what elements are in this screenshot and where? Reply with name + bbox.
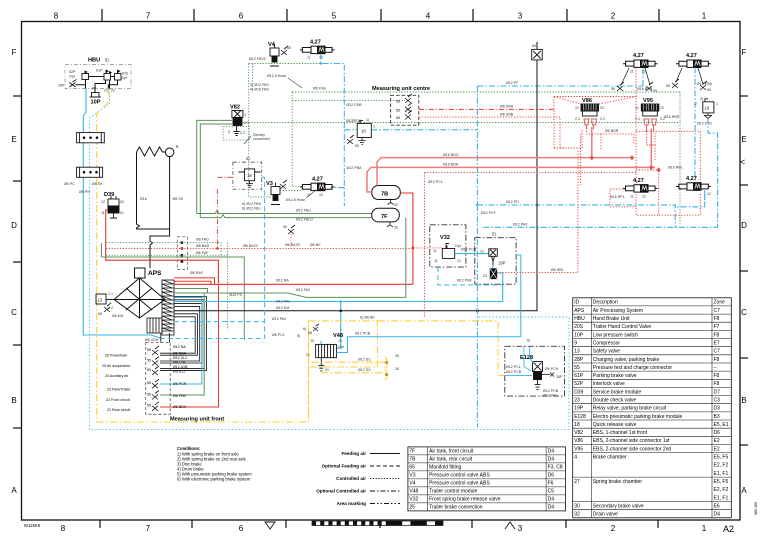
wire yellow area boundary: [97, 321, 309, 422]
svg-text:21 Rear circuit: 21 Rear circuit: [107, 408, 130, 412]
svg-text:Ø12 PBC: Ø12 PBC: [697, 122, 713, 126]
svg-text:Ø6 L2R: Ø6 L2R: [173, 361, 186, 365]
svg-text:11: 11: [307, 193, 311, 197]
svg-text:22: 22: [660, 106, 664, 110]
svg-text:V95: V95: [574, 446, 583, 452]
wire red dash-dot O6 SNA: [419, 108, 554, 110]
svg-text:APS: APS: [148, 270, 162, 277]
svg-text:6): 6): [303, 327, 306, 331]
svg-text:Ø6 BAS3: Ø6 BAS3: [285, 243, 300, 247]
svg-text:Secondary brake valve: Secondary brake valve: [593, 503, 644, 509]
svg-text:Ø6 SNB: Ø6 SNB: [500, 113, 514, 117]
svg-text:D: D: [11, 221, 17, 230]
svg-text:55: 55: [574, 365, 580, 371]
svg-text:13: 13: [98, 298, 103, 303]
svg-text:A: A: [11, 486, 17, 495]
svg-text:7B: 7B: [409, 457, 416, 463]
svg-text:Ø12 SC: Ø12 SC: [358, 358, 371, 362]
APS diamond body: [114, 278, 165, 318]
svg-text:32: 32: [394, 203, 398, 207]
svg-text:22 Front circuit: 22 Front circuit: [106, 398, 130, 402]
svg-text:52P: 52P: [574, 381, 584, 387]
svg-text:F3, C8: F3, C8: [548, 465, 563, 471]
svg-text:D4: D4: [548, 457, 555, 463]
svg-text:Ø12 PBF: Ø12 PBF: [457, 279, 473, 283]
svg-text:<: <: [740, 157, 745, 167]
svg-text:Drain valve: Drain valve: [593, 512, 618, 518]
svg-text:V82: V82: [230, 105, 240, 111]
svg-text:1: 1: [716, 102, 718, 106]
trailer hand control valve 20S: [115, 74, 122, 81]
svg-text:ID: ID: [574, 300, 579, 306]
svg-text:8: 8: [54, 12, 59, 21]
svg-text:E: E: [741, 135, 746, 144]
svg-text:10: 10: [338, 339, 342, 343]
svg-text:Ø12 PA2: Ø12 PA2: [272, 317, 286, 321]
svg-text:F8: F8: [714, 373, 720, 379]
svg-text:Pressure test and charge conne: Pressure test and charge connector: [593, 365, 673, 371]
drain valve 32 on 7F: [387, 222, 393, 227]
electro pneumatic parking brake module E128 box: [505, 346, 565, 396]
svg-text:connected: connected: [253, 137, 270, 141]
svg-text:55: 55: [98, 312, 102, 316]
wire green dotted O12 FS vertical: [227, 243, 229, 330]
trailer coupling 25 upper: [385, 357, 387, 368]
wire black main vertical: [536, 42, 538, 311]
yellow box around V48: [309, 321, 378, 367]
svg-text:Ø12 PDB: Ø12 PDB: [347, 103, 363, 107]
wire red dotted network V86/V95: [554, 97, 700, 216]
svg-text:12: 12: [101, 200, 105, 204]
svg-text:7B: 7B: [381, 192, 388, 198]
svg-text:D4: D4: [548, 449, 555, 455]
svg-text:HBU: HBU: [88, 58, 100, 64]
wire cyan to park trailer test: [160, 302, 202, 385]
frame row ticks right: [740, 96, 748, 445]
svg-text:Ø12 SX: Ø12 SX: [358, 368, 371, 372]
compressor 9 zigzag and motor circle: [137, 147, 174, 157]
svg-text:C: C: [741, 308, 747, 317]
svg-text:7: 7: [146, 524, 151, 533]
svg-text:18: 18: [361, 129, 366, 134]
svg-text:4: 4: [426, 12, 431, 21]
svg-text:6): 6): [527, 339, 530, 343]
wire compressor to APS: [150, 157, 170, 268]
svg-text:Spring brake chamber: Spring brake chamber: [593, 479, 643, 485]
svg-text:11: 11: [101, 211, 105, 215]
svg-text:55: 55: [396, 108, 400, 112]
svg-text:19P: 19P: [498, 261, 506, 266]
wire cyan park supply from HBU down: [83, 89, 161, 339]
E128 valve: [533, 362, 543, 390]
svg-text:Charging valve, parking brake: Charging valve, parking brake: [593, 357, 660, 363]
wire green dotted O6 FAF: [106, 254, 228, 256]
svg-text:10P: 10P: [574, 332, 584, 338]
green dotted box below V82: [223, 127, 249, 140]
svg-text:1): 1): [307, 56, 310, 60]
svg-text:27: 27: [574, 479, 580, 485]
wire cyan dashed O12 PA2: [174, 321, 265, 323]
wire red dotted O12 PCL: [425, 173, 637, 317]
svg-text:A: A: [741, 486, 747, 495]
svg-text:Ø6 XDH: Ø6 XDH: [145, 338, 159, 342]
svg-text:7F: 7F: [409, 449, 415, 455]
svg-text:Ø12 FBV2: Ø12 FBV2: [249, 57, 266, 61]
svg-text:E2, F2: E2, F2: [714, 487, 729, 493]
safety valve 13: [96, 294, 114, 304]
svg-text:Double check valve: Double check valve: [593, 398, 637, 404]
svg-text:Ø6 BDR: Ø6 BDR: [605, 129, 619, 133]
svg-text:Ø6 SK: Ø6 SK: [92, 182, 103, 186]
quick release valve 18 (2nd) dashed box: [233, 162, 262, 189]
svg-text:Ø6 SNA: Ø6 SNA: [500, 105, 514, 109]
svg-text:Ø6 BEH: Ø6 BEH: [173, 405, 187, 409]
svg-text:32: 32: [574, 512, 580, 518]
wire cyan dash-dot O12 PA3: [483, 226, 717, 228]
svg-text:28P: 28P: [574, 357, 584, 363]
red dash-dot from quick release 18 down: [216, 189, 218, 248]
low pressure switch 10P: [90, 93, 102, 98]
svg-text:V86: V86: [574, 438, 583, 444]
wire compressor left leg: [137, 152, 170, 229]
test connector 55 left of 18: [347, 135, 354, 144]
wire blue dotted from HBU down: [90, 89, 569, 430]
APS lower port strip: [147, 318, 162, 333]
wire red dotted O6 BAD long: [106, 247, 413, 249]
svg-text:2: 2: [611, 524, 616, 533]
svg-text:26: 26: [395, 367, 399, 371]
svg-text:Ø12 A1B: Ø12 A1B: [173, 365, 188, 369]
svg-text:26: 26: [395, 354, 399, 358]
svg-text:E5, F5: E5, F5: [714, 455, 729, 461]
svg-text:55: 55: [283, 225, 287, 229]
svg-text:Opt: Opt: [122, 76, 128, 80]
frame column ticks top: [102, 9, 659, 22]
svg-text:F8: F8: [714, 316, 720, 322]
wire cyan V32 to 19P: [455, 253, 489, 255]
svg-text:30: 30: [574, 503, 580, 509]
svg-text:E2: E2: [714, 438, 720, 444]
svg-text:25: 25: [409, 505, 415, 511]
svg-text:61P: 61P: [574, 373, 584, 379]
wire red dotted O6 SNB: [419, 117, 560, 148]
column labels top: [54, 12, 707, 21]
svg-text:C7: C7: [714, 349, 721, 355]
wire green feed to V82: [197, 120, 372, 217]
wire green dotted FSA loop: [292, 92, 680, 187]
svg-text:C: C: [11, 308, 17, 317]
front spring brake release valve V32 dashed box: [430, 225, 466, 267]
svg-text:Ø6 BK: Ø6 BK: [310, 243, 321, 247]
svg-text:B: B: [741, 396, 746, 405]
svg-text:21: 21: [104, 89, 108, 93]
svg-text:55: 55: [287, 46, 291, 50]
svg-text:Brake chamber: Brake chamber: [593, 455, 627, 461]
svg-text:6) Ø12 FBJ: 6) Ø12 FBJ: [242, 207, 261, 211]
svg-text:13: 13: [574, 349, 580, 355]
svg-text:11: 11: [630, 195, 634, 199]
svg-text:EBS, 2-channel side connector: EBS, 2-channel side connector 2nd: [593, 446, 672, 452]
svg-text:55: 55: [355, 144, 359, 148]
wire red O12 RA main bus: [174, 283, 413, 285]
wire cyan PCB from relay to V48: [336, 337, 520, 353]
V95 plugs: [644, 119, 657, 131]
svg-text:Ø12 PD: Ø12 PD: [506, 200, 519, 204]
wire cyan dash-dot 18 right drop: [708, 119, 718, 228]
svg-text:2: 2: [611, 12, 616, 21]
svg-text:E5, F5: E5, F5: [714, 479, 729, 485]
svg-text:Conditions:: Conditions:: [177, 446, 200, 451]
svg-text:7: 7: [146, 12, 151, 21]
svg-text:V86: V86: [582, 98, 592, 104]
svg-text:EBS, 2-channel side connector: EBS, 2-channel side connector 1st: [593, 438, 670, 444]
svg-text:12: 12: [319, 193, 323, 197]
svg-text:Controlled air: Controlled air: [336, 476, 366, 481]
wire green O12 FA2: [174, 218, 406, 298]
svg-text:01: 01: [325, 368, 329, 372]
svg-text:23: 23: [574, 398, 580, 404]
svg-text:Feeding air: Feeding air: [341, 451, 366, 456]
wire green dotted from V82 to right: [243, 92, 680, 225]
svg-text:2.2: 2.2: [240, 131, 245, 135]
svg-text:W125K8: W125K8: [24, 523, 41, 528]
svg-text:Ø12 PA3: Ø12 PA3: [543, 394, 557, 398]
port name labels measuring unit front: [173, 345, 188, 409]
svg-text:55: 55: [147, 368, 151, 372]
wire red D39 supply: [106, 210, 219, 283]
svg-text:6) Ø6 BK: 6) Ø6 BK: [360, 316, 375, 320]
svg-text:Ø6 PCH: Ø6 PCH: [545, 367, 559, 371]
svg-text:5): 5): [297, 334, 300, 338]
wire red dotted valve1 drop: [635, 67, 637, 184]
wire red dotted into V32: [413, 247, 442, 249]
svg-text:18: 18: [247, 173, 252, 178]
svg-text:B: B: [11, 396, 16, 405]
wire red dotted O6 SB1: [497, 150, 578, 273]
svg-text:D39: D39: [574, 389, 583, 395]
svg-text:4,27: 4,27: [633, 178, 644, 184]
wire cyan dash-dot O12 PD: [477, 194, 705, 227]
wire cyan O12 PAL: [174, 273, 503, 348]
wire black O12 KM: [174, 60, 537, 311]
svg-text:985 489: 985 489: [754, 502, 758, 515]
svg-text:21: 21: [306, 353, 310, 357]
svg-text:D4: D4: [548, 497, 555, 503]
svg-text:10: 10: [310, 339, 314, 343]
row labels left: [11, 48, 17, 495]
manifold fitting 65 upper: [77, 133, 105, 143]
svg-text:V82: V82: [574, 430, 583, 436]
fold triangle bottom near col 6: [265, 522, 275, 529]
svg-text:Ø16 RBL: Ø16 RBL: [668, 166, 683, 170]
V86 plugs: [584, 119, 597, 129]
svg-text:65: 65: [409, 465, 415, 471]
node junction strip dashed box: [177, 237, 187, 270]
svg-text:Ø12.5 Hose: Ø12.5 Hose: [286, 198, 305, 202]
svg-text:E2, F2: E2, F2: [714, 463, 729, 469]
svg-text:Ø12 PCL: Ø12 PCL: [506, 365, 521, 369]
svg-text:5: 5: [332, 12, 337, 21]
frame column ticks bottom: [100, 520, 658, 528]
svg-text:3: 3: [228, 130, 230, 134]
svg-text:4,27: 4,27: [633, 53, 644, 59]
svg-text:65: 65: [532, 44, 536, 48]
svg-text:Ø6 PCR: Ø6 PCR: [173, 382, 187, 386]
relay valve 19P group dash-dot box: [475, 238, 516, 285]
svg-text:Trailer brake connection: Trailer brake connection: [429, 505, 483, 511]
svg-text:F6: F6: [548, 481, 554, 487]
svg-text:55: 55: [147, 381, 151, 385]
svg-text:E7: E7: [714, 340, 720, 346]
svg-text:Ø6 FEB: Ø6 FEB: [173, 394, 186, 398]
svg-text:Ø12 PCB: Ø12 PCB: [543, 389, 559, 393]
svg-text:Ø16 BDH: Ø16 BDH: [443, 163, 459, 167]
APS inlet cartridge: [135, 268, 146, 278]
svg-text:Air tank, front circuit: Air tank, front circuit: [429, 449, 474, 455]
svg-text:10P: 10P: [91, 100, 101, 106]
svg-text:55: 55: [147, 404, 151, 408]
svg-text:02: 02: [120, 200, 124, 204]
wire cyan dash-dot valve2 drop: [694, 67, 696, 182]
svg-text:32: 32: [394, 226, 398, 230]
wire red upper ports: [174, 278, 215, 284]
svg-text:Ø16: Ø16: [140, 197, 147, 201]
svg-text:Hand Brake Unit: Hand Brake Unit: [593, 316, 630, 322]
svg-text:Opt: Opt: [455, 244, 461, 248]
svg-text:D7: D7: [714, 389, 721, 395]
svg-text:D4: D4: [548, 505, 555, 511]
wire cyan dash-dot through 18 to PF riser: [371, 69, 643, 205]
svg-text:Ø12 RA: Ø12 RA: [276, 279, 289, 283]
svg-text:Ø12 PBA: Ø12 PBA: [347, 166, 363, 170]
svg-text:26 Powertrain: 26 Powertrain: [105, 354, 127, 358]
svg-text:6: 6: [239, 524, 244, 533]
wire cyan into V48: [320, 341, 322, 344]
svg-text:Ø12 KM: Ø12 KM: [276, 306, 289, 310]
svg-text:1: 1: [244, 113, 246, 117]
svg-text:Ø6 NBA: Ø6 NBA: [173, 352, 187, 356]
svg-text:55: 55: [396, 100, 400, 104]
line type legend: [316, 451, 366, 506]
svg-text:Ø12 XL2: Ø12 XL2: [173, 356, 187, 360]
svg-text:Optional Feeding air: Optional Feeding air: [322, 464, 367, 469]
conditions notes: [177, 446, 252, 482]
svg-text:--: --: [714, 365, 718, 371]
svg-text:V48: V48: [409, 489, 418, 495]
svg-text:Ø6 FSA: Ø6 FSA: [313, 87, 326, 91]
components table bottom centre: [408, 447, 566, 511]
APS port strip: [162, 280, 174, 335]
wire black fan-out from APS ports to measuring unit front: [160, 297, 206, 371]
svg-text:D6: D6: [714, 430, 721, 436]
svg-text:11: 11: [433, 249, 437, 253]
wire salmon O16 BDO: [377, 127, 632, 186]
svg-text:Ø12 NA: Ø12 NA: [173, 345, 186, 349]
svg-text:Description: Description: [593, 300, 618, 306]
svg-text:Trailer Hand Control Valve: Trailer Hand Control Valve: [593, 324, 652, 330]
svg-text:21: 21: [575, 106, 579, 110]
svg-text:18: 18: [574, 422, 580, 428]
svg-text:21: 21: [457, 259, 461, 263]
svg-text:E128: E128: [574, 414, 586, 420]
row labels right: [741, 48, 747, 495]
svg-text:2): 2): [246, 156, 250, 161]
svg-text:22: 22: [600, 106, 604, 110]
svg-text:55: 55: [308, 331, 312, 335]
svg-text:Ø12 FBLD: Ø12 FBLD: [296, 218, 313, 222]
svg-text:4,27: 4,27: [310, 40, 321, 46]
trailer coupling 25 lower: [385, 369, 387, 380]
svg-text:28P: 28P: [58, 84, 65, 88]
svg-text:2.1: 2.1: [244, 121, 249, 125]
svg-text:52P: 52P: [69, 70, 76, 74]
wire cyan dashed PBF loop: [438, 267, 503, 285]
junction diamonds on red lines: [590, 155, 661, 173]
wire green to front circuit test: [160, 293, 204, 395]
svg-text:9: 9: [574, 340, 577, 346]
svg-text:Electro pneumatic parking brak: Electro pneumatic parking brake module: [593, 414, 683, 420]
wire cyan 19P down: [493, 255, 521, 337]
manifold fitting 65 top centre: [532, 49, 543, 60]
svg-text:5) Ø12 FBH: 5) Ø12 FBH: [242, 202, 262, 206]
svg-text:V32: V32: [409, 497, 418, 503]
svg-text:Front spring brake release val: Front spring brake release valve: [429, 497, 501, 503]
svg-text:Zone: Zone: [714, 300, 726, 306]
svg-text:Ø6 MU: Ø6 MU: [112, 314, 124, 318]
svg-text:Ø6 PC1: Ø6 PC1: [272, 333, 285, 337]
manifold fitting 65 lower: [77, 167, 103, 177]
wire red D39 to 18 box: [217, 176, 233, 178]
svg-text:Low pressure switch: Low pressure switch: [593, 332, 639, 338]
svg-text:Ø6 FAD: Ø6 FAD: [196, 238, 209, 242]
svg-text:4,27: 4,27: [686, 176, 697, 182]
wire red tank 7B to BK junction: [400, 193, 413, 284]
svg-text:Ø16 BDO: Ø16 BDO: [443, 153, 459, 157]
svg-text:55: 55: [147, 393, 151, 397]
svg-text:D: D: [741, 221, 747, 230]
svg-text:Ø12 FA2: Ø12 FA2: [296, 288, 310, 292]
svg-text:Ø12 PCL: Ø12 PCL: [428, 180, 443, 184]
svg-text:P5: P5: [92, 87, 96, 91]
svg-text:E6: E6: [714, 503, 720, 509]
wire yellow O12 SC: [312, 361, 385, 363]
svg-text:F8: F8: [714, 332, 720, 338]
svg-text:Ø16 RBR: Ø16 RBR: [664, 115, 680, 119]
svg-text:Ø6 SB1: Ø6 SB1: [551, 268, 564, 272]
svg-text:HBU: HBU: [574, 316, 585, 322]
svg-text:2): 2): [700, 97, 703, 101]
ID legend table right: [573, 298, 732, 518]
wire green upper port: [174, 289, 208, 294]
svg-text:Service brake module: Service brake module: [593, 389, 642, 395]
svg-text:Ø12 PA3: Ø12 PA3: [513, 223, 527, 227]
svg-text:Relay valve, parking brake cir: Relay valve, parking brake circuit: [593, 406, 667, 412]
svg-text:E2: E2: [714, 446, 720, 452]
svg-text:Ø12 FBU: Ø12 FBU: [296, 209, 311, 213]
svg-text:5): 5): [105, 58, 109, 63]
svg-text:1: 1: [702, 524, 707, 533]
svg-text:F7: F7: [714, 324, 720, 330]
svg-text:F8: F8: [714, 381, 720, 387]
svg-text:22: 22: [111, 89, 115, 93]
svg-text:Parking brake valve: Parking brake valve: [593, 373, 637, 379]
svg-text:2.1: 2.1: [635, 117, 640, 121]
interlock valve 52P: [82, 74, 89, 80]
svg-text:21: 21: [635, 106, 639, 110]
svg-text:2: 2: [695, 102, 697, 106]
svg-text:E1, F1: E1, F1: [714, 495, 729, 501]
wire green dotted O6 FAD: [106, 243, 221, 256]
